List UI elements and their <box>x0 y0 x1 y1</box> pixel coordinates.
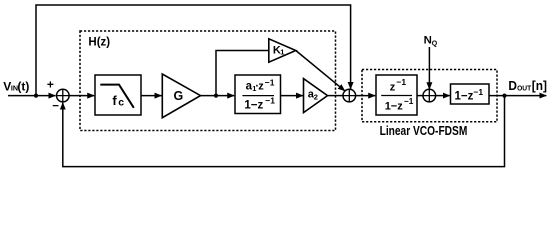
svg-text:2: 2 <box>314 92 318 101</box>
svg-text:−1: −1 <box>265 77 275 87</box>
svg-text:1−z: 1−z <box>385 100 404 112</box>
svg-text:−: − <box>52 101 59 113</box>
svg-text:c: c <box>118 96 124 108</box>
svg-text:−1: −1 <box>396 77 406 87</box>
svg-text:OUT: OUT <box>517 86 532 93</box>
svg-text:1−z: 1−z <box>455 91 474 103</box>
svg-text:1: 1 <box>280 47 284 56</box>
svg-text:z: z <box>390 81 396 93</box>
svg-text:+: + <box>47 77 54 91</box>
svg-text:Q: Q <box>432 40 438 47</box>
svg-text:N: N <box>424 34 432 46</box>
svg-text:z: z <box>258 81 264 93</box>
svg-text:1−z: 1−z <box>244 99 263 111</box>
svg-text:Linear VCO-FDSM: Linear VCO-FDSM <box>380 124 468 138</box>
svg-text:−1: −1 <box>473 87 483 97</box>
svg-text:[n]: [n] <box>532 79 547 93</box>
svg-text:D: D <box>508 79 517 93</box>
svg-text:(t): (t) <box>17 79 29 93</box>
svg-text:f: f <box>112 93 117 108</box>
svg-text:H(z): H(z) <box>88 37 110 49</box>
svg-text:G: G <box>174 89 184 103</box>
svg-text:−1: −1 <box>404 97 414 106</box>
svg-text:−1: −1 <box>265 96 275 106</box>
